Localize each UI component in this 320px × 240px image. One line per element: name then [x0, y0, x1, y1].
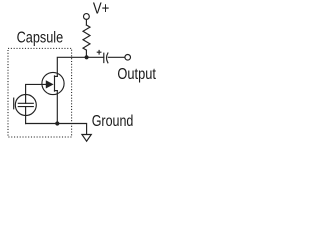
- wire: [108, 56, 125, 58]
- capacitor C1: [104, 53, 108, 63]
- wire: [85, 50, 87, 57]
- capacitor C1 plus sign: [97, 50, 101, 54]
- terminal Output: [125, 55, 131, 61]
- capsule boundary: [8, 48, 72, 137]
- wire: [87, 56, 104, 58]
- node source junction: [55, 121, 59, 125]
- capsule element (electret condenser): [14, 95, 37, 116]
- svg-text:V+: V+: [93, 1, 110, 18]
- svg-text:Ground: Ground: [92, 113, 134, 130]
- svg-text:Output: Output: [117, 66, 156, 83]
- wire: [56, 91, 58, 124]
- wire: [26, 84, 46, 103]
- wire: [85, 19, 87, 25]
- ground: [82, 135, 91, 142]
- node drain junction: [85, 55, 89, 59]
- terminal V+: [84, 14, 90, 20]
- resistor R1: [83, 25, 90, 50]
- svg-text:Capsule: Capsule: [17, 29, 64, 46]
- wire: [25, 107, 27, 124]
- transistor Q1 JFET: [42, 72, 64, 94]
- wire: [26, 124, 87, 135]
- wire: [57, 57, 86, 76]
